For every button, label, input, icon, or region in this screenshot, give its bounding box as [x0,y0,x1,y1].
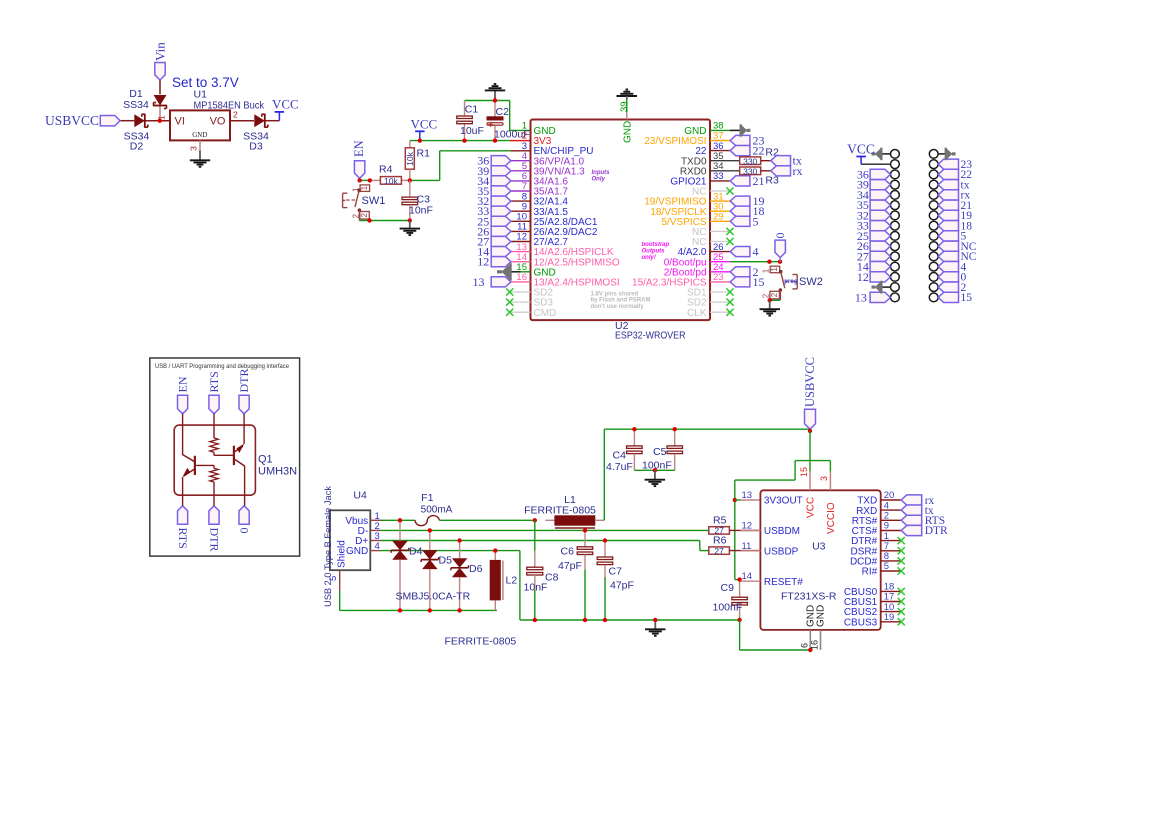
svg-text:47pF: 47pF [558,560,582,572]
svg-text:C1: C1 [465,103,479,115]
U3 GND pins [800,605,827,650]
svg-text:FT231XS-R: FT231XS-R [781,591,837,603]
wire top gnd rail [465,101,531,141]
wire 3V3 pin stub [510,140,531,142]
switch SW2 [761,262,822,301]
svg-text:L2: L2 [506,575,518,587]
wire bottom rail [520,619,740,621]
wire EN row [360,151,531,181]
svg-text:10k: 10k [384,176,398,186]
net flag 0 [773,233,787,262]
svg-text:R1: R1 [417,148,431,160]
flag EN top [175,376,189,414]
wire Vbus row [381,519,535,521]
wire USBVCC to VCC pin [809,431,811,471]
svg-text:27: 27 [714,546,724,556]
net flag 13 [473,275,511,289]
junction VI node [158,119,162,123]
gnd arrow pin15 U2 [497,263,531,281]
svg-text:10nF: 10nF [409,205,433,217]
connector left gnd arrow row1 [872,148,891,161]
svg-text:0: 0 [773,233,787,239]
connector right pin circles [929,150,938,302]
junction flag0 [778,260,782,264]
svg-text:U3: U3 [812,541,826,553]
resistor R3 [740,166,779,186]
wire upper res to base [214,452,234,455]
junction D6 rail [457,608,461,612]
svg-text:VCCIO: VCCIO [826,502,837,534]
label FT231XS-R [781,591,837,603]
label ferrite-0805 bottom [445,636,517,648]
svg-text:Outputs: Outputs [642,249,666,255]
resistor R2 [740,146,779,166]
label D1 SS34 [123,88,149,111]
junction C8 rail [533,618,537,622]
svg-text:5: 5 [328,576,339,581]
svg-text:Vin: Vin [153,42,168,61]
resistor R4 [379,164,401,186]
junction D5 rail [428,608,432,612]
svg-text:SW2: SW2 [799,276,823,288]
svg-text:13: 13 [855,290,867,304]
svg-text:VCC: VCC [272,96,299,111]
svg-text:2: 2 [770,292,779,297]
svg-text:GND: GND [346,546,368,557]
label U2 designator [615,320,686,342]
svg-text:USBVCC: USBVCC [803,357,817,407]
wire Q1 columns [183,414,245,506]
svg-text:47pF: 47pF [610,580,634,592]
svg-text:Only: Only [592,177,606,183]
U3 VCC pin [799,467,817,518]
wire Vin to D1 [159,80,161,121]
label SMBJ [396,591,471,603]
svg-text:1.8V pins shared: 1.8V pins shared [591,292,639,298]
junction C6 top [583,528,587,532]
svg-text:RESET#: RESET# [764,577,803,588]
svg-text:10k: 10k [405,151,415,165]
frame usb/uart interface [150,358,300,556]
flag RTS bottom [176,506,190,549]
flag DTR top [237,369,251,414]
U4 pin numbers [328,511,380,581]
junction D4 rail [398,608,402,612]
note inputs only [592,170,611,182]
wire D+ row [381,541,709,551]
svg-text:D2: D2 [130,141,144,153]
svg-text:FERRITE-0805: FERRITE-0805 [445,636,517,648]
diode D1 [153,95,167,109]
svg-text:ESP32-WROVER: ESP32-WROVER [615,330,686,342]
junction EN-R1-C3 [408,178,412,182]
svg-text:CBUS3: CBUS3 [844,617,878,628]
svg-text:RI#: RI# [862,567,878,578]
junction C4 top [632,427,636,431]
U3 rx tx RTS DTR flags [901,495,948,537]
svg-text:SMBJ5.0CA-TR: SMBJ5.0CA-TR [396,591,471,603]
wire RXD0 to R3 [710,170,740,172]
svg-text:4: 4 [753,245,759,259]
IC Q1 body [174,425,255,495]
svg-text:R5: R5 [713,514,727,526]
svg-text:12: 12 [477,255,489,269]
svg-text:USBVCC: USBVCC [45,113,99,128]
svg-text:D3: D3 [249,141,263,153]
svg-text:12: 12 [857,270,869,284]
wire USBVCC input net [120,120,279,122]
net flag rx [771,164,803,178]
resistor R6 [709,535,730,556]
wire SW2 to gnd [770,299,780,301]
capacitor C5 [642,429,683,472]
svg-text:DTR: DTR [207,528,221,552]
svg-text:C5: C5 [653,446,667,458]
svg-text:EN: EN [175,376,189,392]
svg-text:5: 5 [753,214,759,228]
svg-text:USB 2.0 Type B Female Jack: USB 2.0 Type B Female Jack [323,486,334,607]
svg-text:1: 1 [770,267,779,272]
U2 right pin names and numbers [632,121,734,319]
junction D5 dminus [428,528,432,532]
svg-text:10nF: 10nF [524,582,548,594]
svg-text:RTS: RTS [176,528,190,549]
svg-text:D4: D4 [409,546,423,558]
capacitor C7 [597,541,634,621]
wire TXD0 to R2 [710,160,740,162]
wire SW1 to C3 gnd [359,220,409,222]
svg-text:DTR: DTR [237,369,251,393]
regulator U1 MP1584EN body [170,110,230,140]
junction C9 bottom [737,618,741,622]
connector left gnd arrow row14 [872,281,891,294]
label U3 [812,541,826,553]
svg-text:bootstrap: bootstrap [642,242,670,248]
svg-text:2: 2 [761,293,770,298]
connector left net flags [857,167,891,284]
svg-text:13: 13 [742,490,753,501]
svg-text:+: + [488,120,494,131]
svg-text:Set to 3.7V: Set to 3.7V [172,75,239,90]
junction SW1 bottom [367,218,371,222]
svg-text:R6: R6 [713,535,727,547]
switch SW1 [343,180,386,220]
svg-text:Inputs: Inputs [592,170,611,176]
svg-text:CMD: CMD [534,308,557,319]
svg-text:USBDM: USBDM [764,526,800,537]
svg-text:10uF: 10uF [460,125,484,137]
svg-text:3V3OUT: 3V3OUT [764,496,803,507]
capacitor C3 [402,180,433,220]
svg-text:SW1: SW1 [362,195,386,207]
junction SW2 gnd [768,298,772,302]
svg-text:6: 6 [800,643,810,648]
svg-text:15: 15 [799,467,809,477]
wire L1 to top rail [604,429,810,520]
svg-text:rx: rx [793,164,803,178]
fuse F1 [415,492,453,526]
svg-text:3: 3 [189,146,199,151]
wire R6 to USBDP [729,550,760,552]
IC U3 body [760,490,880,630]
ground top (C2) [485,84,505,101]
junction U3 gnd [808,648,812,652]
IC U4 body [330,510,370,570]
svg-text:330: 330 [743,166,757,176]
junction EN flag [357,178,361,182]
svg-text:1: 1 [360,185,369,190]
wire R2 to tx flag [761,160,771,162]
net flag tx [771,154,802,168]
net flag USBVCC [803,357,817,429]
wire 3V3 rail [410,141,510,148]
junction C7 top [603,538,607,542]
connector left flag 13 [855,290,891,304]
svg-text:UMH3N: UMH3N [258,466,297,478]
svg-text:D5: D5 [439,555,453,567]
junction C2 bottom [493,138,497,142]
ferrite bead L1 [524,494,604,528]
svg-text:4.7uF: 4.7uF [606,461,633,473]
resistor Q1 lower [210,468,218,482]
svg-text:2: 2 [233,110,238,120]
TVS D6 [451,541,483,611]
net flags right of U2 [710,134,765,289]
wire pin25 to SW2 [730,261,780,263]
svg-text:VCC: VCC [847,142,875,157]
label D2 SS34 [124,131,150,153]
ground above U2 [617,90,638,100]
svg-text:VCC: VCC [411,117,438,132]
svg-text:GND: GND [816,605,827,627]
svg-text:U4: U4 [353,490,367,502]
note bootstrap outputs [642,242,670,261]
U3 VCCIO pin [819,471,837,534]
svg-text:USB / UART Programming and deb: USB / UART Programming and debugging int… [155,363,289,370]
label Set to 3.7V [172,75,239,90]
svg-text:CLK: CLK [687,308,707,319]
wire D- row [381,529,709,531]
ground bottom mid [645,620,666,636]
label U1 [194,89,265,112]
svg-text:RTS: RTS [207,371,221,392]
svg-text:GND: GND [192,131,207,139]
svg-text:USBDP: USBDP [764,546,799,557]
diode D2 [134,114,148,128]
U3 left pins [740,490,803,588]
svg-text:2: 2 [360,212,369,217]
label usb jack [323,486,334,607]
wire C4 C5 gnd [634,469,674,471]
connector right gnd arrow [938,148,956,161]
svg-text:MP1584EN Buck: MP1584EN Buck [194,101,265,112]
svg-text:GND: GND [623,121,634,143]
label U4 [353,490,367,502]
svg-text:D6: D6 [469,563,483,575]
svg-text:1: 1 [762,268,771,273]
svg-text:C6: C6 [561,546,575,558]
svg-text:C4: C4 [613,450,627,462]
svg-text:C9: C9 [721,582,735,594]
capacitor C1 [457,103,484,137]
svg-text:330: 330 [743,156,757,166]
junction gnd rail [653,618,657,622]
svg-text:R4: R4 [379,164,393,176]
pin 39 GND top [619,99,634,143]
wire R1 to EN junction [409,169,411,180]
U3 right pins [844,490,905,628]
svg-text:FERRITE-0805: FERRITE-0805 [524,505,596,517]
wire R5 to USBDM [729,529,760,531]
wire 3V3OUT net down [735,500,740,580]
svg-text:SS34: SS34 [123,99,149,111]
svg-text:2: 2 [351,214,360,219]
capacitor C9 [713,580,748,620]
wire 3V3OUT stub [735,499,761,501]
svg-text:EN: EN [352,140,366,157]
svg-text:C7: C7 [609,566,623,578]
flag 0 bottom [238,506,252,534]
junction C6 rail [583,618,587,622]
flag DTR bottom [207,506,221,552]
flag Vin [153,42,168,80]
wire GND row [381,551,520,620]
U4 pin names [337,516,369,568]
svg-text:Q1: Q1 [258,454,273,466]
svg-text:1: 1 [157,115,167,120]
capacitor C2 [487,106,530,141]
junction gnd-C2 top [493,98,497,102]
diode D3 [254,114,267,128]
svg-text:100nF: 100nF [713,602,743,614]
IC U2 body [531,120,711,321]
junction D6 dplus [457,538,461,542]
resistor R1 [405,148,430,170]
svg-text:DTR: DTR [925,525,948,537]
resistor R5 [709,514,730,535]
resistor Q1 upper [210,438,218,452]
ground under C4C5 [645,470,666,486]
TVS D4 [391,520,422,610]
net flags left of U2 [477,154,511,269]
svg-text:VI: VI [175,116,185,128]
gnd arrow pin38 U2 [710,124,750,137]
label Q1 [258,454,297,478]
flag RTS top [207,371,221,414]
ground under C3 [400,221,421,236]
wire lower res to base [196,465,214,468]
svg-text:only!: only! [642,255,656,261]
junction C5 top [673,427,677,431]
junction L2 top [493,548,497,552]
label D3 SS34 [243,131,269,153]
transistor Q1 right [234,444,245,467]
connector left pin circles [891,150,900,302]
wire shield to rail [340,591,497,610]
flag EN [352,140,366,178]
svg-text:500mA: 500mA [421,504,453,515]
pin 3 stub U1 [189,140,201,150]
connector left VCC row2 [847,142,890,165]
junction C4C5 gnd [653,468,657,472]
svg-text:13: 13 [473,275,485,289]
ferrite bead L2 [490,551,518,611]
pin number 1 U1 [157,115,167,120]
svg-text:don't use normally: don't use normally [591,304,645,310]
pin number 2 U1 [233,110,238,120]
U4 pin stubs [340,520,381,591]
connector right net flags [938,159,977,304]
note 1.8V pins [591,292,651,310]
junction SW1 pin1 [368,178,372,182]
junction Vbus branch C8 [533,518,537,522]
wire VCC-VCCIO branch [735,461,831,500]
svg-text:U1: U1 [194,89,208,101]
capacitor C8 [524,520,559,620]
svg-text:15: 15 [961,292,973,304]
junction C9 top [737,577,741,581]
junction C1 bottom [462,138,466,142]
svg-text:15: 15 [753,275,765,289]
svg-text:F1: F1 [421,492,433,504]
junction USBVCC [808,429,812,433]
junction C7 rail [603,618,607,622]
ground under SW2 [760,300,781,315]
svg-text:0: 0 [238,528,252,534]
transistor Q1 left [182,455,195,478]
capacitor C6 [558,530,593,620]
wire R3 to rx flag [761,170,771,172]
junction 3V3OUT [733,498,737,502]
junction SW2 wire [767,260,771,264]
ground under U1 [190,150,210,166]
svg-text:prog: prog [784,279,798,285]
label USBVCC [45,113,120,128]
svg-text:by Flash and PSRAM: by Flash and PSRAM [591,298,651,304]
junction D4 vbus [398,518,402,522]
svg-text:3: 3 [819,476,829,481]
junction VCC-3V3 [418,138,422,142]
TVS D5 [421,530,452,610]
svg-text:C2: C2 [496,106,510,118]
svg-text:Shield: Shield [337,540,348,568]
svg-text:39: 39 [619,101,630,112]
capacitor C4 [606,429,642,473]
junction C3 bottom [408,218,412,222]
power flag VCC out [272,96,299,120]
svg-text:VO: VO [210,116,226,128]
svg-text:VCC: VCC [806,497,817,518]
U2 left pin names and numbers [506,121,620,319]
wire C9 to U3 gnd [740,620,811,650]
power flag VCC mid [411,117,438,141]
